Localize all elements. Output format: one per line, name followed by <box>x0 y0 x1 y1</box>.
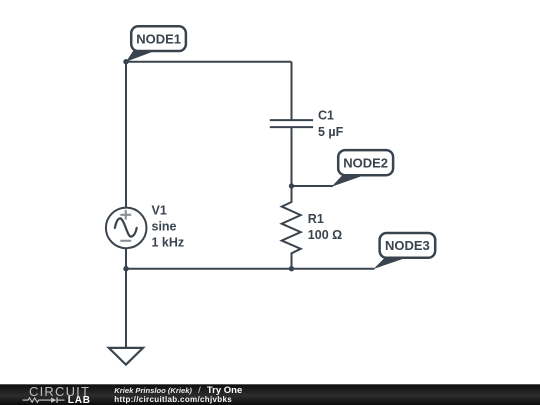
node R1 bottom junction dot <box>289 266 294 271</box>
svg-text:5 µF: 5 µF <box>318 125 344 139</box>
svg-text:1 kHz: 1 kHz <box>152 236 185 250</box>
node NODE2 junction dot <box>289 183 294 188</box>
footer logo resistor-diode glyph <box>23 398 65 402</box>
wire capacitor bottom to NODE2 junction <box>291 127 293 186</box>
wire vertical down to capacitor top plate <box>291 62 293 120</box>
wire top horizontal NODE1 to capacitor branch <box>126 61 292 63</box>
svg-text:http://circuitlab.com/chjvbks: http://circuitlab.com/chjvbks <box>114 395 232 404</box>
label R1 value <box>308 212 342 242</box>
footer bar <box>0 384 540 405</box>
label V1 value <box>152 204 185 250</box>
svg-text:LAB: LAB <box>68 395 91 405</box>
node bottom-left junction dot <box>123 266 128 271</box>
footer credit line <box>114 385 242 404</box>
svg-text:C1: C1 <box>318 108 334 122</box>
voltage source V1 <box>106 208 147 249</box>
wire left vertical top (NODE1 to V1) <box>125 62 127 208</box>
resistor R1 <box>282 186 301 269</box>
wire bottom horizontal <box>126 268 374 270</box>
node NODE1 dot <box>123 59 128 64</box>
svg-text:V1: V1 <box>152 204 167 218</box>
wire stub to NODE2 flag <box>292 185 334 187</box>
svg-text:NODE2: NODE2 <box>343 155 388 170</box>
capacitor C1 <box>270 120 313 127</box>
wire down to ground <box>125 269 127 348</box>
ground <box>109 348 143 365</box>
node NODE2 flag <box>332 150 394 187</box>
svg-text:100 Ω: 100 Ω <box>308 228 342 242</box>
wire V1 bottom to junction <box>125 248 127 269</box>
label C1 value <box>318 108 344 138</box>
svg-text:NODE3: NODE3 <box>385 238 430 253</box>
node NODE3 flag <box>374 233 436 269</box>
svg-text:R1: R1 <box>308 212 324 226</box>
node NODE1 flag <box>126 26 186 61</box>
svg-text:sine: sine <box>152 220 177 234</box>
svg-text:NODE1: NODE1 <box>136 31 181 46</box>
